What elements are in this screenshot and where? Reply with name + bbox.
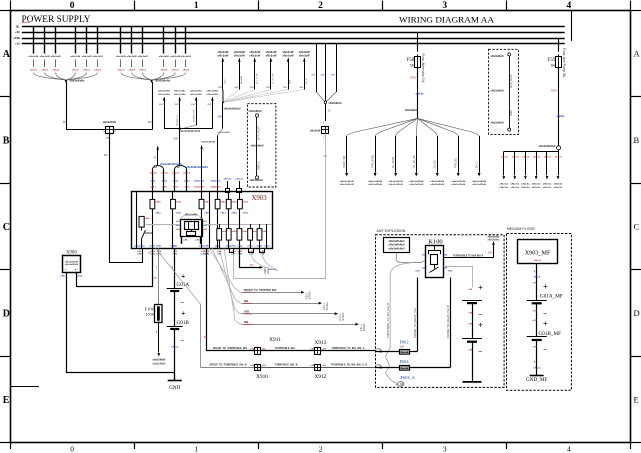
svg-text:xNx3: xNx3 (555, 157, 563, 159)
svg-text:−: − (181, 337, 185, 344)
svg-text:F604_A: F604_A (401, 375, 416, 380)
svg-text:30B: 30B (191, 104, 195, 106)
svg-text:xNx3x: xNx3x (557, 115, 566, 118)
svg-text:xNx3: xNx3 (83, 70, 91, 72)
svg-text:C: C (634, 222, 640, 232)
svg-text:xNx3xW: xNx3xW (283, 54, 295, 57)
svg-text:xNx3xWxN: xNx3xWxN (405, 109, 418, 112)
svg-text:TURNTABLE_TO_INA_INA_A_B: TURNTABLE_TO_INA_INA_A_B (331, 364, 367, 367)
svg-text:FRAME_TO_RELAY_INA_B: FRAME_TO_RELAY_INA_B (446, 305, 450, 338)
svg-text:+30B: +30B (13, 36, 20, 40)
svg-text:30B: 30B (207, 104, 211, 106)
svg-text:0: 0 (70, 445, 74, 453)
svg-text:30B: 30B (218, 87, 222, 89)
svg-text:PRAD_MD: PRAD_MD (343, 156, 346, 168)
svg-text:xNx3xWx: xNx3xWx (190, 91, 203, 93)
svg-text:Fuse, Alternator 5 A: Fuse, Alternator 5 A (421, 54, 425, 84)
svg-text:xNx3x: xNx3x (510, 184, 520, 186)
svg-text:F604: F604 (400, 359, 410, 364)
svg-text:B: B (634, 135, 640, 145)
svg-text:3: 3 (442, 1, 447, 11)
svg-text:C: C (3, 222, 10, 233)
svg-text:xNx3xWxN: xNx3xWxN (251, 146, 264, 148)
svg-text:B+_BD: B+_BD (434, 160, 437, 168)
svg-text:MF5XX: MF5XX (342, 312, 345, 320)
svg-text:30B: 30B (331, 75, 335, 77)
svg-text:xNx3x: xNx3x (244, 324, 253, 326)
svg-text:xNx3xWxN: xNx3xWxN (491, 56, 504, 58)
svg-text:GND: GND (169, 385, 180, 391)
svg-text:−: − (478, 312, 482, 319)
svg-text:F58: F58 (406, 57, 414, 63)
svg-text:B+_AD(B): B+_AD(B) (392, 157, 395, 168)
svg-text:xNx3xWxN: xNx3xWxN (340, 184, 355, 186)
svg-text:xNx3xWx: xNx3xWx (185, 215, 198, 217)
svg-text:xNx3xW: xNx3xW (51, 56, 62, 58)
svg-text:xNx3xW: xNx3xW (40, 56, 51, 58)
svg-text:xNx3: xNx3 (128, 70, 136, 72)
svg-text:xNx3x: xNx3x (22, 22, 31, 24)
svg-text:X913: X913 (315, 340, 327, 346)
svg-text:xNx3xWxN: xNx3xWxN (491, 123, 504, 125)
svg-text:H_I_R_PN: H_I_R_PN (273, 73, 275, 84)
svg-text:xNx3xWx: xNx3xWx (190, 94, 203, 96)
svg-text:3: 3 (443, 445, 447, 453)
svg-text:xNx3: xNx3 (172, 70, 180, 72)
svg-text:B+_C: B+_C (476, 161, 479, 168)
svg-text:xNx3xWxNx3: xNx3xWxNx3 (389, 239, 406, 243)
svg-text:xNx3xWxN: xNx3xWxN (368, 184, 383, 186)
svg-text:PN: PN (324, 155, 328, 158)
svg-text:4: 4 (567, 445, 571, 453)
svg-text:xNx3xWx: xNx3xWx (158, 94, 171, 96)
svg-text:SPDB05_N: SPDB05_N (177, 114, 179, 126)
svg-text:xNx3x: xNx3x (554, 184, 564, 186)
svg-text:Fuse, Anti Pump 5A: Fuse, Anti Pump 5A (562, 48, 566, 78)
svg-text:xNx3x: xNx3x (244, 303, 253, 305)
svg-text:MF5XX: MF5XX (363, 323, 366, 331)
svg-text:xNx3xW: xNx3xW (181, 56, 192, 58)
svg-text:MEDIUM FLOOR: MEDIUM FLOOR (507, 227, 535, 231)
svg-text:+30: +30 (15, 30, 20, 34)
svg-text:xNx3: xNx3 (160, 70, 168, 72)
svg-text:S15_I: S15_I (225, 78, 227, 84)
svg-text:E: E (634, 395, 639, 405)
svg-text:PTO_BD: PTO_BD (455, 158, 458, 168)
svg-text:30B: 30B (173, 139, 178, 141)
svg-text:−: − (478, 349, 482, 356)
svg-text:xNx3xWxN: xNx3xWxN (152, 363, 165, 365)
svg-text:S909_A: S909_A (258, 161, 261, 170)
svg-text:xNx3xWxNx: xNx3xWxNx (155, 81, 171, 83)
svg-text:+: + (181, 309, 186, 318)
svg-text:30B: 30B (299, 87, 303, 89)
svg-text:X903_MF: X903_MF (525, 250, 551, 257)
svg-text:A: A (3, 49, 11, 60)
svg-text:30B: 30B (217, 117, 222, 119)
svg-text:xNx3: xNx3 (172, 173, 180, 175)
svg-text:PTO_AD(B): PTO_AD(B) (372, 155, 375, 168)
svg-text:xNx3xWxN: xNx3xWxN (409, 181, 424, 183)
svg-text:D: D (3, 309, 10, 320)
svg-text:xNx3xWxN: xNx3xWxN (249, 111, 262, 113)
svg-text:SPGUP_TO_TURNTABLE_INA_B: SPGUP_TO_TURNTABLE_INA_B (209, 364, 247, 367)
svg-text:X911: X911 (269, 337, 281, 343)
svg-text:PN: PN (154, 277, 158, 280)
svg-text:G01A_MF: G01A_MF (540, 293, 563, 299)
svg-text:30B: 30B (175, 104, 179, 106)
svg-text:R675: R675 (410, 76, 417, 79)
svg-text:xNx3: xNx3 (183, 173, 191, 175)
svg-text:xNx3xWxN: xNx3xWxN (329, 103, 342, 105)
svg-text:−: − (181, 299, 185, 306)
svg-text:R679: R679 (551, 90, 558, 93)
svg-text:xNx3x: xNx3x (244, 292, 253, 294)
svg-text:+15: +15 (15, 42, 20, 46)
svg-text:xNx3xWxN: xNx3xWxN (491, 91, 504, 93)
svg-text:xNx3xW: xNx3xW (159, 56, 170, 58)
svg-text:xNx3xWx: xNx3xWx (488, 240, 501, 242)
svg-text:G01A: G01A (177, 282, 190, 288)
svg-text:G01B: G01B (177, 320, 190, 326)
svg-text:30B: 30B (283, 87, 287, 89)
svg-text:xNx3xWx: xNx3xWx (174, 91, 187, 93)
svg-text:xNx3xWxNx3xWx: xNx3xWxNx3xWx (186, 167, 209, 169)
svg-text:xNx3: xNx3 (533, 277, 541, 279)
svg-text:30B: 30B (311, 75, 315, 77)
svg-text:X906: X906 (66, 251, 77, 256)
svg-text:F100: F100 (145, 307, 155, 312)
svg-text:xNx3xWxNx3: xNx3xWxNx3 (224, 109, 242, 111)
svg-text:xNx3x: xNx3x (499, 184, 509, 186)
svg-text:B: B (3, 136, 10, 147)
svg-text:30B: 30B (250, 87, 254, 89)
svg-text:xNx3x: xNx3x (554, 187, 564, 189)
svg-text:xNx3xWx: xNx3xWx (218, 132, 231, 134)
svg-text:xNx3xWx: xNx3xWx (488, 236, 501, 238)
svg-text:xNx3xW: xNx3xW (127, 56, 138, 58)
svg-text:1: 1 (194, 1, 199, 11)
svg-text:xNx3: xNx3 (182, 70, 190, 72)
svg-text:xNx3xW: xNx3xW (266, 54, 278, 57)
svg-text:xNx3xWxN: xNx3xWxN (103, 121, 116, 124)
svg-text:xNx3x: xNx3x (532, 187, 542, 189)
svg-text:MF5XX: MF5XX (309, 291, 312, 299)
svg-text:xNx3xWxNx3: xNx3xWxNx3 (539, 145, 557, 148)
svg-text:xNx3: xNx3 (30, 70, 38, 72)
svg-text:xNx3x: xNx3x (543, 184, 553, 186)
svg-text:PN: PN (63, 120, 67, 124)
svg-text:100A: 100A (146, 313, 155, 317)
svg-text:xNx3xWxN: xNx3xWxN (472, 181, 487, 183)
svg-text:xNx3: xNx3 (512, 157, 520, 159)
svg-text:xNx3xWx: xNx3xWx (206, 94, 219, 96)
svg-text:−: − (543, 311, 547, 318)
svg-text:+: + (181, 271, 186, 280)
svg-text:xNx3xW: xNx3xW (116, 56, 127, 58)
svg-text:xNx3xW: xNx3xW (93, 56, 104, 58)
svg-text:BL: BL (16, 25, 20, 29)
svg-text:xNx3: xNx3 (117, 70, 125, 72)
svg-text:xNx3x: xNx3x (268, 269, 278, 271)
svg-text:X912: X912 (315, 374, 327, 380)
svg-text:xNx3x: xNx3x (534, 260, 543, 262)
svg-text:MF5XX: MF5XX (326, 302, 329, 310)
svg-text:5A: 5A (551, 64, 556, 68)
svg-text:I: I (534, 359, 535, 364)
svg-text:−: − (543, 347, 547, 354)
svg-text:4: 4 (567, 1, 572, 11)
svg-text:30B: 30B (159, 104, 163, 106)
svg-text:xNx3xWxN: xNx3xWxN (430, 181, 445, 183)
svg-text:xNx3xWxN: xNx3xWxN (152, 360, 165, 362)
svg-text:xNx3xWxN: xNx3xWxN (472, 184, 487, 186)
svg-text:xNx3: xNx3 (171, 347, 179, 349)
svg-text:ANT EXPLOSION: ANT EXPLOSION (377, 229, 406, 233)
svg-text:xNx3x: xNx3x (532, 184, 542, 186)
svg-text:GND_MF: GND_MF (526, 377, 547, 383)
svg-text:30B: 30B (234, 87, 238, 89)
svg-text:X910: X910 (256, 374, 268, 380)
svg-text:+: + (543, 319, 548, 328)
svg-text:xNx3xW: xNx3xW (28, 56, 39, 58)
svg-text:xNx3xWxN: xNx3xWxN (451, 184, 466, 186)
svg-text:xNx3x: xNx3x (521, 184, 531, 186)
svg-text:xNx3xW: xNx3xW (170, 56, 181, 58)
svg-text:30A: 30A (400, 344, 405, 348)
svg-text:xNx3x: xNx3x (499, 187, 509, 189)
svg-text:xNx3xW: xNx3xW (299, 54, 311, 57)
svg-text:xNx3xWxN: xNx3xWxN (65, 262, 79, 264)
svg-text:ANTI_PUMP: ANTI_PUMP (258, 126, 261, 140)
svg-text:xNx3: xNx3 (52, 70, 60, 72)
svg-text:TURNTABLE_TO_INA_INA_B: TURNTABLE_TO_INA_INA_B (386, 303, 390, 338)
svg-text:xNx3xWxN: xNx3xWxN (389, 184, 404, 186)
svg-text:5A: 5A (410, 64, 415, 68)
svg-text:xNx3xWxNx3: xNx3xWxNx3 (389, 246, 406, 250)
svg-text:xNx3xWxN: xNx3xWxN (451, 181, 466, 183)
svg-text:xNx3xW: xNx3xW (82, 56, 93, 58)
svg-text:2: 2 (319, 445, 323, 453)
svg-text:PN: PN (250, 264, 254, 267)
svg-text:xNx3xWxN: xNx3xWxN (65, 264, 79, 266)
svg-text:S909: S909 (510, 110, 513, 116)
svg-text:xNx3xW: xNx3xW (310, 131, 321, 133)
svg-text:xNx3xW: xNx3xW (249, 54, 261, 57)
svg-text:PT_AD_PA: PT_AD_PA (413, 155, 416, 168)
svg-text:xNx3: xNx3 (501, 157, 509, 159)
svg-text:TURNTABLE_INA_B: TURNTABLE_INA_B (275, 364, 298, 367)
svg-text:POWER SUPPLY: POWER SUPPLY (22, 15, 91, 25)
svg-text:xNx3xWxN: xNx3xWxN (368, 181, 383, 183)
svg-text:xNx3xWxN: xNx3xWxN (389, 181, 404, 183)
svg-text:xNx3xWxN: xNx3xWxN (250, 180, 263, 182)
svg-text:TURNTABLE TO INA INA.4: TURNTABLE TO INA INA.4 (453, 254, 484, 257)
svg-text:TURNTABLE_INA: TURNTABLE_INA (275, 347, 295, 350)
svg-text:0: 0 (70, 1, 75, 11)
svg-text:FRAME_TO_RELAY_INA: FRAME_TO_RELAY_INA (413, 308, 417, 338)
svg-text:E: E (3, 395, 10, 406)
svg-text:I: I (534, 269, 535, 274)
svg-text:xNx3xW: xNx3xW (70, 56, 81, 58)
svg-text:F602: F602 (400, 340, 409, 345)
svg-text:xNx3xWxN: xNx3xWxN (201, 142, 216, 144)
svg-text:xNx3: xNx3 (72, 70, 80, 72)
svg-text:I: I (156, 329, 157, 334)
svg-text:xNx3xWx: xNx3xWx (158, 91, 171, 93)
svg-text:IN_I_R_PN: IN_I_R_PN (256, 73, 258, 84)
svg-text:A61B4N: A61B4N (240, 75, 243, 84)
svg-text:xNx3xWxN: xNx3xWxN (409, 184, 424, 186)
svg-text:xNx3: xNx3 (94, 70, 102, 72)
svg-text:+: + (543, 282, 548, 291)
svg-text:xNx3xWx: xNx3xWx (174, 94, 187, 96)
svg-text:1: 1 (194, 445, 198, 453)
svg-text:xNx3: xNx3 (533, 368, 541, 370)
svg-text:K100: K100 (428, 239, 442, 246)
svg-text:xNx3xWxN: xNx3xWxN (340, 181, 355, 183)
svg-text:WIRING DIAGRAM AA: WIRING DIAGRAM AA (399, 14, 495, 24)
svg-text:xNx3xWx: xNx3xWx (206, 91, 219, 93)
svg-text:xNx3xW: xNx3xW (138, 56, 149, 58)
svg-text:xNx3x: xNx3x (145, 232, 154, 235)
svg-text:30B: 30B (266, 87, 270, 89)
svg-text:xNx3: xNx3 (139, 70, 147, 72)
svg-text:TURNTABLE_TO_INA_INA_A: TURNTABLE_TO_INA_INA_A (332, 347, 365, 350)
svg-text:xNx3x: xNx3x (235, 179, 244, 181)
svg-text:D: D (634, 308, 640, 318)
svg-text:xNx3x: xNx3x (244, 314, 253, 316)
svg-text:B+_N: B+_N (306, 78, 308, 84)
svg-text:+: + (478, 283, 483, 292)
svg-text:xNx3xWxNx3xW: xNx3xWxNx3xW (180, 131, 201, 133)
svg-text:xNx3xWxNx3: xNx3xWxNx3 (389, 243, 406, 247)
svg-text:xNx3xW: xNx3xW (217, 54, 229, 57)
svg-text:xNx3x: xNx3x (521, 187, 531, 189)
svg-text:+: + (478, 321, 483, 330)
svg-text:xNx3: xNx3 (41, 70, 49, 72)
svg-text:I: I (323, 121, 324, 125)
svg-text:SPDB05_PN: SPDB05_PN (194, 109, 196, 122)
svg-text:F59: F59 (547, 57, 555, 63)
svg-text:xNx3xWxN: xNx3xWxN (430, 184, 445, 186)
svg-text:xNx3: xNx3 (544, 157, 552, 159)
svg-text:30B: 30B (488, 253, 493, 255)
svg-text:xNx3: xNx3 (150, 173, 158, 175)
svg-text:xNx3xWxNx: xNx3xWxNx (70, 81, 86, 83)
svg-text:30B: 30B (321, 75, 325, 77)
svg-text:xNx3x: xNx3x (416, 93, 425, 96)
svg-text:xNx3x: xNx3x (543, 187, 553, 189)
svg-text:PN: PN (104, 153, 108, 157)
svg-text:SPGUP_TO_TURNTABLE_INA: SPGUP_TO_TURNTABLE_INA (213, 347, 247, 350)
svg-text:PN: PN (148, 120, 152, 124)
svg-text:I: I (156, 265, 157, 270)
svg-text:xNx3: xNx3 (533, 157, 541, 159)
svg-text:xNx3x: xNx3x (510, 187, 520, 189)
svg-text:xNx3x: xNx3x (224, 179, 233, 181)
svg-text:xNx3xW: xNx3xW (234, 54, 246, 57)
svg-text:xNx3: xNx3 (161, 173, 169, 175)
svg-text:ANTI_PUMP: ANTI_PUMP (510, 74, 513, 88)
svg-text:xNx3: xNx3 (522, 157, 530, 159)
svg-text:X903: X903 (252, 195, 268, 202)
svg-text:2: 2 (318, 1, 323, 11)
svg-text:A: A (634, 49, 641, 59)
